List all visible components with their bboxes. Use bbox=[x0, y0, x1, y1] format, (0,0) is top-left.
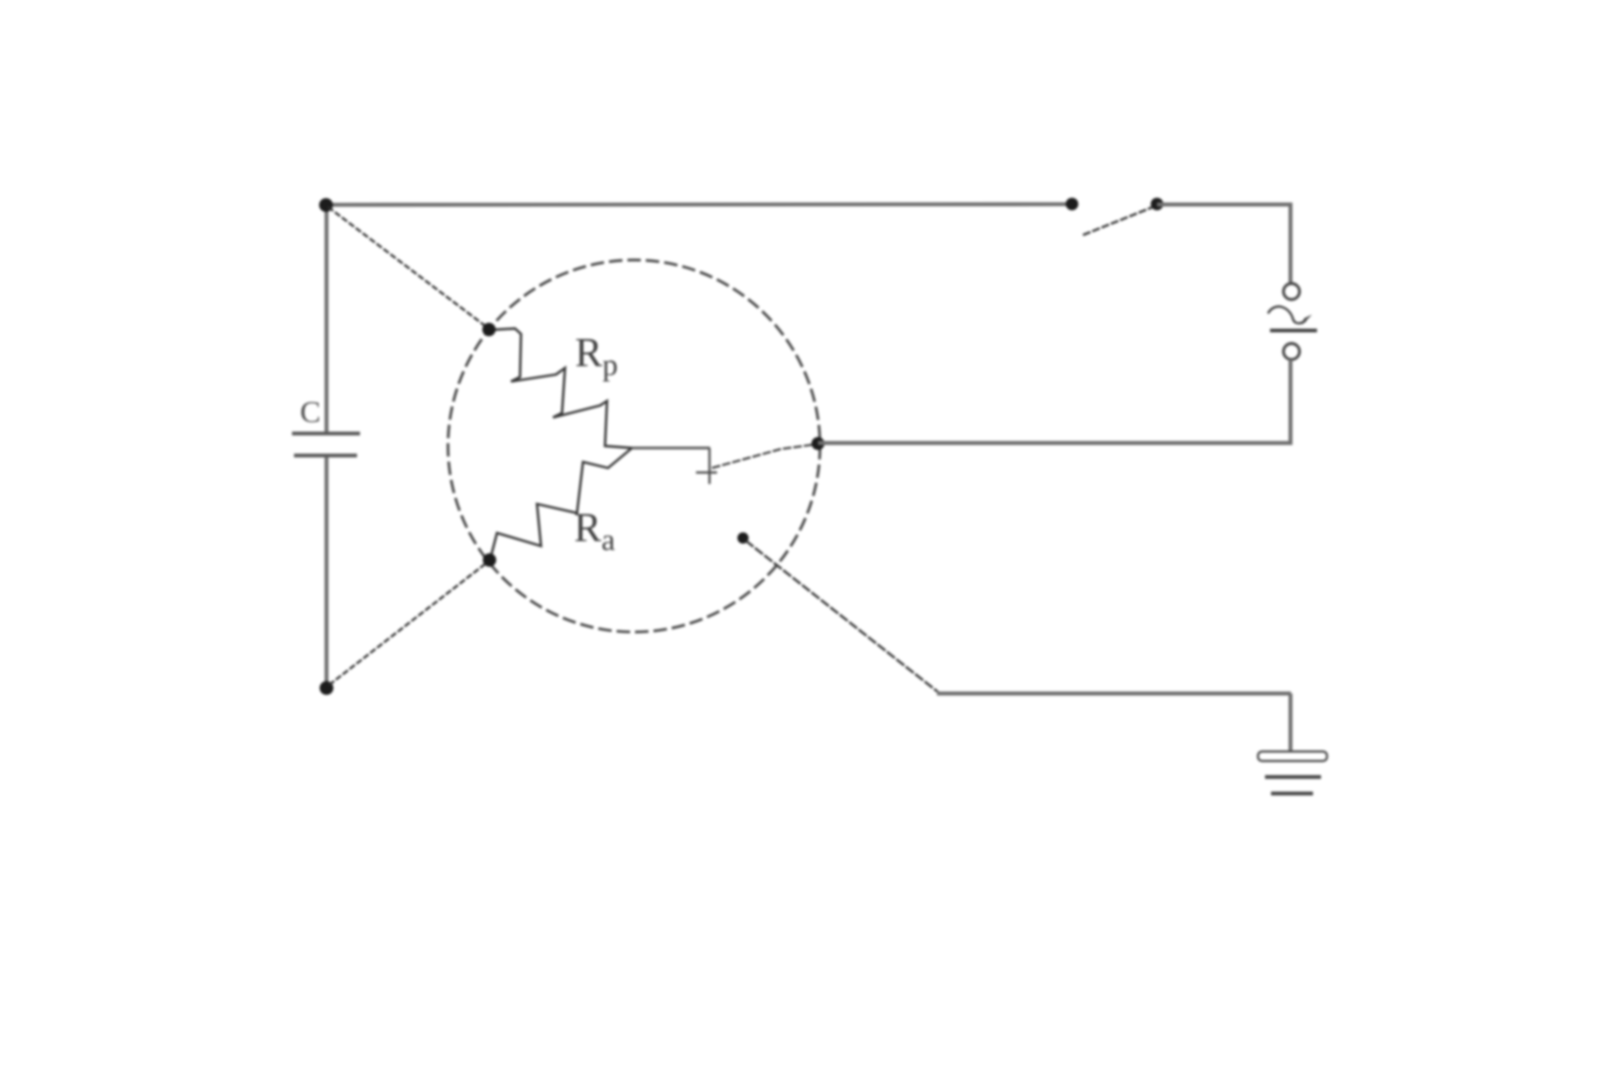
AC source terminal (upper circle) bbox=[1284, 284, 1300, 300]
wire: diagonal from anode dot to bottom rail bbox=[746, 541, 939, 693]
wire: left vertical from node A down to capacitor top plate bbox=[325, 205, 329, 432]
switch S: left contact dot bbox=[1066, 198, 1079, 211]
resistor Rp (upper zigzag) bbox=[489, 329, 632, 449]
tube envelope (dashed circle) bbox=[448, 260, 820, 632]
wire: vertical drop into ground bbox=[1289, 694, 1293, 754]
wire: center tap vertical stub bbox=[708, 448, 710, 484]
wiper arm to right node bbox=[712, 444, 818, 468]
anode dot inside envelope bbox=[737, 532, 748, 543]
wire: from lower terminal down and left to right node bbox=[818, 360, 1291, 444]
resistor Ra (lower zigzag) bbox=[490, 448, 632, 560]
AC source terminal (lower circle) bbox=[1284, 344, 1300, 360]
node B (bottom-left junction) bbox=[320, 681, 334, 695]
wire: center tap horizontal from resistor junction bbox=[632, 447, 710, 450]
wire: top horizontal from node A to switch bbox=[326, 202, 1072, 207]
ground bbox=[1258, 752, 1327, 794]
right node dot on envelope bbox=[812, 437, 825, 450]
wire: diagonal from node A to cathode node bbox=[328, 207, 488, 328]
switch S: right contact dot bbox=[1151, 198, 1164, 211]
node A (top-left junction) bbox=[319, 198, 333, 212]
AC source tilde with arrow bbox=[1268, 307, 1317, 331]
capacitor C bbox=[292, 434, 360, 456]
wire: left vertical from capacitor bottom plate to node B bbox=[325, 457, 329, 687]
switch S: blade bbox=[1083, 205, 1158, 235]
cathode node dot (lower) bbox=[483, 553, 496, 566]
cathode node dot (upper) bbox=[482, 323, 495, 336]
wire: diagonal from node B to cathode node bbox=[329, 561, 489, 685]
tap contact tick bbox=[696, 471, 717, 473]
wire: from switch to top-right corner and down bbox=[1157, 205, 1291, 285]
svg-text:C: C bbox=[300, 394, 321, 429]
wire: bottom horizontal rail to ground bbox=[937, 692, 1291, 696]
